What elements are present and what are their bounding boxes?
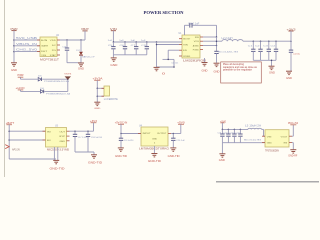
svg-text:CHG_5V0: CHG_5V0: [16, 50, 38, 52]
junction bus C9: [146, 41, 148, 43]
U2 pin3 stub: [37, 51, 40, 53]
svg-text:OUTPUT: OUTPUT: [157, 133, 167, 135]
U3 right pin stubs: [67, 130, 70, 132]
svg-text:AGND: AGND: [193, 44, 199, 47]
ground (under C4): [214, 62, 220, 64]
svg-text:GND: GND: [267, 143, 272, 145]
U2 pin8 stub: [57, 39, 60, 41]
svg-text:VOUT: VOUT: [281, 136, 288, 138]
svg-text:GND: GND: [60, 141, 66, 143]
capacitor C15: [66, 40, 68, 48]
capacitor C20: [172, 134, 174, 139]
junction output node: [290, 40, 292, 42]
wire FB bottom link: [157, 66, 175, 68]
wire caps lower rail: [75, 151, 94, 153]
svg-text:BYP: BYP: [60, 136, 66, 138]
IC U3 LDO body: [46, 128, 67, 148]
capacitor C18: [87, 131, 89, 134]
note box: [221, 62, 262, 83]
svg-text:GND-TID: GND-TID: [168, 156, 180, 158]
wire U5 gnd: [292, 142, 293, 144]
svg-text:STAT: STAT: [50, 54, 57, 57]
svg-text:EN: EN: [183, 50, 187, 52]
svg-text:C17 2.2uF: C17 2.2uF: [78, 137, 88, 139]
svg-text:MCP73811T: MCP73811T: [40, 58, 60, 61]
U5 left pin stubs: [262, 135, 265, 137]
wire to U3 IN: [9, 130, 45, 132]
ground (under D2): [78, 62, 84, 64]
svg-text:GND: GND: [219, 160, 225, 162]
svg-text:GND: GND: [94, 108, 101, 110]
diode D2: [79, 52, 83, 55]
wire to VIN pin: [157, 44, 180, 46]
svg-text:POWER SECTION: POWER SECTION: [144, 10, 185, 15]
svg-text:C20 1uF: C20 1uF: [176, 140, 185, 142]
U4 right pin stub: [168, 133, 171, 135]
wire up to +3V3: [93, 123, 95, 132]
wire AGND: [203, 45, 217, 47]
junction bus C3: [268, 40, 270, 42]
svg-text:EN: EN: [284, 143, 288, 145]
junction C23: [234, 129, 236, 131]
wire U5 out: [292, 135, 293, 137]
wire rail to gnd: [93, 152, 95, 155]
capacitor C4: [216, 50, 218, 53]
junction bus C7: [135, 41, 137, 43]
ground (output caps): [269, 65, 275, 67]
U1 right pin stubs: [200, 36, 203, 38]
svg-text:GND-TID: GND-TID: [148, 161, 161, 163]
capacitor C17: [74, 131, 76, 134]
wire bootstrap left: [184, 25, 186, 35]
wire row1 right: [42, 78, 68, 80]
capacitor C24: [239, 129, 241, 134]
svg-text:MLO-S-04-TE3: MLO-S-04-TE3: [244, 139, 262, 141]
wire U4 output: [171, 133, 181, 135]
svg-text:PTGB5539SN-DO-SA: PTGB5539SN-DO-SA: [44, 80, 70, 83]
capacitor C23: [233, 129, 235, 134]
capacitor C7: [135, 42, 137, 47]
wire OR common: [67, 79, 69, 91]
svg-text:GND: GND: [202, 71, 208, 73]
capacitor C21: [221, 129, 223, 134]
junction bus C2: [260, 40, 262, 42]
svg-text:VBUS_IN: VBUS_IN: [16, 44, 38, 46]
svg-text:GND: GND: [269, 72, 275, 74]
title-block top edge (bottom right): [216, 181, 319, 183]
wire battery rail: [8, 125, 10, 159]
IC U5 RF LDO body: [265, 130, 289, 147]
junction D2 tap: [80, 39, 82, 41]
wire FB top stub: [97, 87, 104, 89]
svg-text:PGND: PGND: [193, 50, 199, 52]
svg-text:capacitors and vias as close a: capacitors and vias as close as: [223, 66, 258, 69]
ground (under C19): [118, 147, 124, 149]
wire bootstrap right: [193, 24, 217, 26]
U3 left pin stubs: [43, 130, 46, 132]
wire SW node vertical: [216, 37, 218, 46]
ferrite bead L4 body: [104, 86, 110, 96]
wire down to input: [120, 124, 122, 133]
capacitor C8 (bootstrap): [189, 23, 191, 28]
svg-text:BYPASS: BYPASS: [183, 55, 191, 58]
svg-text:OUT: OUT: [60, 131, 66, 133]
wire rail to gnd (RF): [221, 143, 223, 154]
U4 left pin stub: [138, 133, 141, 135]
svg-text:GND: GND: [78, 68, 84, 70]
net flag AP3V3: [5, 145, 9, 149]
junction rail pin1: [8, 130, 10, 132]
svg-text:GND: GND: [214, 71, 220, 73]
wire to U3 EN: [9, 139, 45, 141]
junction bus C14: [275, 40, 277, 42]
wire U4 gnd stub: [153, 146, 155, 153]
wire output bus: [243, 40, 291, 42]
svg-text:MIC5205-3.3YM5: MIC5205-3.3YM5: [47, 148, 70, 151]
wire FB link: [163, 58, 175, 60]
junction C18: [87, 130, 89, 132]
svg-text:L4 FERRITE: L4 FERRITE: [104, 99, 118, 101]
wire to U2 pin2: [14, 45, 40, 47]
wire input bus (RF): [222, 128, 248, 130]
wire bottom gnd run: [9, 158, 56, 160]
ground (ferrite): [94, 101, 100, 103]
junction bus EN-drop: [156, 41, 158, 43]
wire FB vertical: [173, 59, 175, 67]
svg-text:GND-TID: GND-TID: [88, 162, 102, 164]
svg-text:GND: GND: [152, 138, 158, 140]
wire input bus: [113, 41, 182, 43]
ground (U3 output caps): [91, 154, 97, 156]
svg-text:GND-TID: GND-TID: [50, 167, 65, 170]
svg-text:GND: GND: [286, 78, 292, 80]
L4 pin stubs: [102, 87, 105, 89]
svg-text:C19 1uF/16: C19 1uF/16: [124, 140, 134, 142]
wire cap bank lower rail: [113, 54, 146, 56]
capacitor C3: [268, 41, 270, 49]
svg-text:L3 10uH 2A: L3 10uH 2A: [245, 125, 262, 128]
wire U3 output: [70, 130, 94, 132]
capacitor C22: [227, 129, 229, 134]
svg-text:Place all decoupling: Place all decoupling: [223, 64, 245, 66]
svg-text:C10 10n: C10 10n: [171, 62, 179, 64]
svg-text:C18 1uF/16: C18 1uF/16: [91, 137, 103, 139]
svg-text:MLO-S-6201-TE3: MLO-S-6201-TE3: [218, 51, 239, 53]
svg-text:PTGB5539SN-DO-SA: PTGB5539SN-DO-SA: [46, 92, 71, 95]
IC U2 charger body: [40, 37, 57, 57]
wire down to bus: [221, 123, 223, 130]
svg-text:5V0_USB: 5V0_USB: [16, 38, 38, 40]
wire U3 gnd stubs: [53, 147, 55, 160]
svg-text:VIN: VIN: [267, 136, 272, 138]
wire to U2 pin3: [14, 51, 40, 53]
wire row2 right: [44, 90, 67, 92]
svg-text:EN: EN: [47, 140, 51, 142]
junction rail-pin3: [13, 51, 15, 53]
wire U1 gnd: [204, 58, 206, 62]
junction FB top: [97, 88, 99, 90]
ground (cap bank): [111, 57, 117, 59]
U2 pin5 stub: [57, 54, 60, 56]
svg-text:VSYS: VSYS: [64, 74, 72, 76]
wire L3 to U5: [262, 128, 264, 130]
wire input to U4: [121, 133, 141, 135]
svg-text:LM3281RGR: LM3281RGR: [183, 59, 206, 62]
sheet left border: [4, 0, 6, 177]
ground (under U4): [151, 153, 157, 155]
svg-text:GND-RF: GND-RF: [288, 155, 298, 157]
svg-text:BAT54C-7-F: BAT54C-7-F: [82, 56, 95, 59]
IC U1 buck regulator body: [182, 35, 200, 58]
wire D2 cathode: [80, 40, 82, 52]
svg-text:INPUT: INPUT: [143, 133, 152, 135]
wire VBUS rail: [13, 31, 15, 63]
junction bus C6: [124, 41, 126, 43]
wire to EN pin: [168, 49, 179, 51]
svg-text:BOOST: BOOST: [183, 39, 191, 41]
ground (under U3): [53, 159, 59, 161]
U2 pin7 stub: [57, 44, 60, 46]
U5 right pin stubs: [289, 135, 292, 137]
svg-text:DET: DET: [41, 51, 48, 53]
wire output lower rail: [253, 59, 276, 61]
wire rail to ground2: [271, 60, 273, 66]
capacitor C19: [120, 134, 122, 139]
svg-text:+C12 10u: +C12 10u: [293, 54, 301, 56]
ground (U5): [290, 149, 296, 151]
wire C15-to-D2 gnd link: [67, 62, 81, 64]
junction C22: [228, 129, 230, 131]
junction C19: [120, 133, 122, 135]
wire up to VBAT flag: [84, 31, 86, 40]
svg-text:GND-TID: GND-TID: [115, 156, 127, 158]
svg-text:GND: GND: [11, 69, 17, 72]
wire VOS: [203, 40, 222, 42]
capacitor C14: [275, 41, 277, 49]
capacitor C6: [124, 42, 126, 47]
svg-text:SC: SC: [52, 45, 57, 47]
ground (under top-left rail): [11, 62, 17, 64]
junction rail-pin1: [13, 39, 15, 41]
junction rail pin2: [8, 139, 10, 141]
wire EN branch vertical: [167, 50, 169, 59]
junction C21: [222, 129, 224, 131]
junction rail-pin2: [13, 45, 15, 47]
ground (RF caps): [219, 153, 225, 155]
svg-text:VOS: VOS: [194, 41, 200, 43]
IC U4 7805 body: [141, 127, 168, 146]
junction bus C5: [113, 41, 115, 43]
svg-text:TPS79330DBV: TPS79330DBV: [265, 150, 279, 152]
ground (under U1): [202, 62, 208, 64]
capacitor C2: [260, 41, 262, 49]
svg-text:PG: PG: [52, 50, 56, 52]
wire rail to ground: [112, 55, 114, 58]
wire SW to node: [203, 36, 217, 38]
capacitor C12: [290, 41, 292, 50]
svg-text:VIN: VIN: [183, 44, 188, 46]
wire U2 output: [60, 39, 85, 41]
svg-text:possible to the regulator: possible to the regulator: [223, 69, 252, 72]
ground (EN network): [154, 66, 160, 68]
wire VIN drop: [112, 31, 114, 42]
junction bus C1: [253, 40, 255, 42]
junction C17: [74, 130, 76, 132]
inductor L3: [248, 128, 262, 129]
wire node to C4: [216, 46, 218, 51]
wire RF lower rail: [222, 142, 265, 144]
svg-text:GND: GND: [110, 64, 117, 67]
wire to U2 pin1: [14, 39, 40, 41]
capacitor C9: [146, 42, 148, 47]
wire up to +3V3 flag: [290, 31, 292, 41]
junction C24: [240, 129, 242, 131]
U2 pin6 stub: [57, 49, 60, 51]
wire up to +5V0: [180, 124, 182, 133]
diode D6: [40, 90, 43, 93]
svg-text:VSS: VSS: [41, 55, 47, 57]
inductor L2: [222, 40, 243, 42]
diode D5: [38, 78, 41, 81]
wire FB bottom stub: [97, 95, 104, 97]
U1 left pin stubs: [179, 38, 182, 40]
svg-text:AP3.3V: AP3.3V: [12, 148, 20, 151]
wire row1 left: [20, 77, 22, 79]
wire EN drop vertical: [156, 42, 158, 67]
wire ferrite rail: [96, 80, 98, 102]
capacitor C5: [112, 42, 114, 47]
svg-text:VDD: VDD: [50, 40, 57, 42]
wire row2 left: [20, 90, 22, 92]
ground (under C12): [286, 70, 292, 72]
U2 pin2 stub: [37, 45, 40, 47]
ground (under C20): [170, 147, 176, 149]
svg-text:SW: SW: [195, 37, 199, 39]
svg-text:E/N: E/N: [41, 40, 48, 42]
junction FB bottom: [97, 95, 99, 97]
svg-text:L2 2.2uH: L2 2.2uH: [222, 38, 233, 40]
wire C15 bottom: [66, 51, 68, 63]
U2 pin1 stub: [37, 39, 40, 41]
capacitor C1: [252, 41, 254, 49]
svg-text:GATE: GATE: [41, 45, 49, 48]
junction C15 tap: [66, 39, 68, 41]
junction C20: [173, 133, 175, 135]
